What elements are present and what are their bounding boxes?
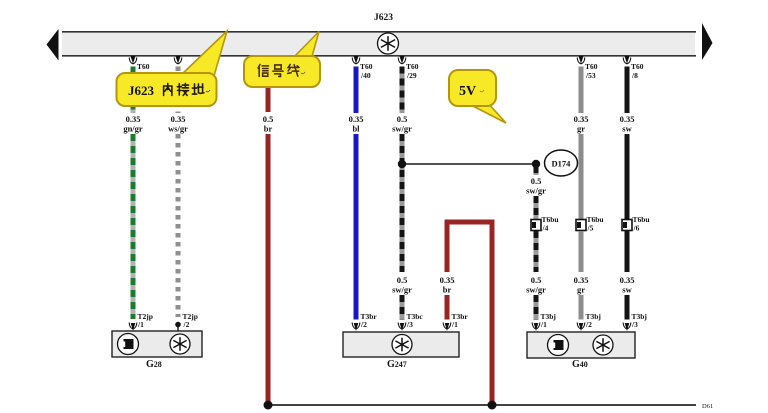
svg-text:0.5: 0.5 [263, 114, 274, 124]
wire 0.35 bl upper segment [354, 67, 359, 114]
inline connector T6bu/6 [622, 215, 650, 233]
bus connection symbol (circled star) [378, 33, 399, 54]
terminal T60/29 at bus [398, 56, 419, 80]
svg-text:D61: D61 [702, 403, 713, 410]
G28 sensor symbol [118, 334, 139, 355]
terminal T2jp/2 [175, 312, 198, 331]
label 0.35 br [440, 275, 455, 295]
svg-text:0.5: 0.5 [531, 176, 542, 186]
callout 5V [449, 70, 506, 123]
wire 0.35 br horizontal top [445, 220, 495, 225]
terminal T3bj/3 [623, 312, 647, 331]
label 0.5 sw/gr [392, 114, 412, 134]
wire 0.35 sw lower segment [625, 295, 630, 320]
wire 0.35 ws/gr lower segment [176, 134, 181, 317]
wire 0.5 sw/gr upper segment [400, 67, 405, 114]
svg-text:T60: T60 [631, 62, 644, 71]
svg-text:0.35: 0.35 [126, 114, 141, 124]
svg-text:br: br [264, 124, 273, 134]
svg-text:0.35: 0.35 [574, 114, 589, 124]
svg-text:D174: D174 [552, 159, 572, 169]
junction node D174 [532, 160, 540, 168]
wire 0.5 sw/gr above T6bu [534, 196, 539, 219]
terminal T3bc/3 [398, 312, 423, 331]
svg-text:0.5: 0.5 [531, 275, 542, 285]
svg-text:sw/gr: sw/gr [392, 285, 412, 295]
svg-text:/2: /2 [183, 320, 190, 329]
svg-text:T60: T60 [406, 62, 419, 71]
svg-text:5V: 5V [459, 84, 476, 99]
svg-text:gr: gr [577, 285, 585, 295]
junction on sw/gr wire [398, 160, 406, 168]
G247 star symbol [392, 335, 412, 355]
svg-text:0.35: 0.35 [171, 114, 186, 124]
svg-text:sw: sw [622, 285, 632, 295]
wire 0.35 br left leg lower [445, 295, 450, 320]
svg-text:0.35: 0.35 [349, 114, 364, 124]
svg-text:0.5: 0.5 [397, 275, 408, 285]
wire 0.35 gr lower segment [579, 295, 584, 320]
terminal T3br/2 [352, 312, 377, 331]
svg-text:G247: G247 [387, 359, 407, 370]
svg-text:T60: T60 [585, 62, 598, 71]
terminal T3bj/2 [577, 312, 601, 331]
wire 0.35 br left leg upper [445, 222, 450, 272]
label 0.5 sw/gr below D174 [526, 176, 546, 196]
label 0.35 gr [574, 114, 589, 134]
wire 0.35 sw below T6bu [625, 231, 630, 272]
wire 0.35 gn/gr lower segment [131, 134, 136, 319]
terminal T2jp/1 [129, 312, 153, 331]
svg-text:sw: sw [622, 124, 632, 134]
svg-text:sw/gr: sw/gr [526, 285, 546, 295]
label 0.35 gn/gr [123, 114, 143, 134]
G40 star symbol [593, 335, 613, 355]
label 0.35 bl [349, 114, 364, 134]
svg-text:G28: G28 [146, 359, 162, 370]
svg-text:/29: /29 [406, 71, 417, 80]
svg-text:/53: /53 [585, 71, 596, 80]
label 0.35 sw [620, 114, 635, 134]
svg-text:br: br [443, 285, 452, 295]
svg-text:/1: /1 [540, 320, 547, 329]
svg-text:/3: /3 [406, 320, 413, 329]
component G28 box [112, 331, 202, 357]
terminal T60/40 at bus [352, 56, 373, 80]
wire 0.35 sw upper segment [625, 67, 630, 114]
svg-text:0.35: 0.35 [440, 275, 455, 285]
label 0.35 gr mid [574, 275, 589, 295]
wire 0.5 sw/gr stub below D174 [534, 166, 539, 175]
svg-text:0.5: 0.5 [397, 114, 408, 124]
wire 0.35 gr middle segment [579, 134, 584, 219]
svg-text:0.35: 0.35 [574, 275, 589, 285]
ground line [268, 404, 696, 406]
inline connector T6bu/5 [576, 215, 604, 233]
wire 0.5 sw/gr middle segment [400, 134, 405, 272]
svg-text:ws/gr: ws/gr [168, 124, 188, 134]
svg-text:/2: /2 [585, 320, 592, 329]
terminal T3bj/1 [532, 312, 556, 331]
component G247 box [343, 332, 459, 357]
junction br wire to ground [264, 401, 273, 410]
left bus arrow [47, 29, 59, 61]
wire 0.5 br upper segment [266, 57, 271, 112]
terminal T60 at bus [174, 56, 182, 64]
svg-text:gn/gr: gn/gr [123, 124, 143, 134]
svg-text:gr: gr [577, 124, 585, 134]
label 0.5 sw/gr mid [392, 275, 412, 295]
wire 0.35 gr upper segment [579, 67, 584, 114]
svg-text:0.35: 0.35 [620, 275, 635, 285]
callout signal line [244, 32, 320, 88]
right bus arrow [702, 23, 713, 60]
svg-text:/1: /1 [137, 320, 144, 329]
svg-text:T60: T60 [360, 62, 373, 71]
svg-text:sw/gr: sw/gr [392, 124, 412, 134]
terminal T60/53 at bus [577, 56, 598, 80]
terminal T60 at bus [129, 56, 150, 71]
svg-text:/6: /6 [633, 224, 640, 233]
svg-text:G40: G40 [572, 359, 588, 370]
bus bar J623 [62, 32, 696, 56]
svg-text:/1: /1 [451, 320, 458, 329]
terminal T60/8 at bus [623, 56, 644, 80]
svg-text:J623: J623 [128, 83, 155, 98]
wire 0.35 gr below T6bu [579, 231, 584, 272]
callout J623 internal ground [117, 31, 228, 106]
svg-text:/5: /5 [587, 224, 594, 233]
wire D174 horizontal link [402, 163, 536, 165]
svg-text:/2: /2 [360, 320, 367, 329]
component D174 [545, 150, 578, 176]
G40 sensor symbol [548, 335, 569, 356]
wire 0.5 br lower segment [266, 134, 271, 404]
label 0.35 ws/gr [168, 114, 188, 134]
junction 0.35 br to ground [488, 401, 497, 410]
G28 star symbol [170, 334, 190, 354]
wire 0.35 sw middle segment [625, 134, 630, 219]
wire 0.5 sw/gr below T6bu [534, 231, 539, 272]
svg-text:/40: /40 [360, 71, 371, 80]
wire 0.35 ws/gr upper segment [176, 67, 181, 114]
wire 0.5 sw/gr lower segment [534, 295, 539, 320]
svg-text:sw/gr: sw/gr [526, 186, 546, 196]
wire 0.35 gn/gr upper segment [131, 67, 136, 114]
label 0.35 sw mid [620, 275, 635, 295]
svg-text:J623: J623 [374, 13, 393, 23]
svg-text:/8: /8 [631, 71, 638, 80]
svg-text:0.35: 0.35 [620, 114, 635, 124]
component G40 box [527, 332, 635, 358]
terminal T3br/1 [443, 312, 468, 331]
svg-text:/4: /4 [542, 224, 549, 233]
wire 0.5 sw/gr lower segment [400, 295, 405, 320]
svg-text:T60: T60 [137, 62, 150, 71]
inline connector T6bu/4 [531, 215, 559, 233]
svg-text:bl: bl [352, 124, 360, 134]
svg-text:/3: /3 [631, 320, 638, 329]
label 0.5 br [263, 114, 274, 134]
wire 0.35 bl lower segment [354, 134, 359, 320]
wire 0.35 br right leg to ground line [490, 222, 495, 404]
label 0.5 sw/gr mid [526, 275, 546, 295]
